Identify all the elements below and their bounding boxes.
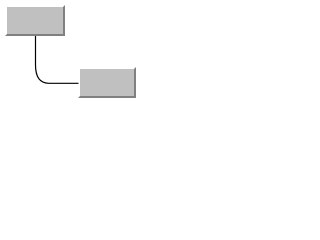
node box1 [5, 5, 65, 36]
node box2 [78, 67, 136, 98]
wire [0, 0, 145, 111]
